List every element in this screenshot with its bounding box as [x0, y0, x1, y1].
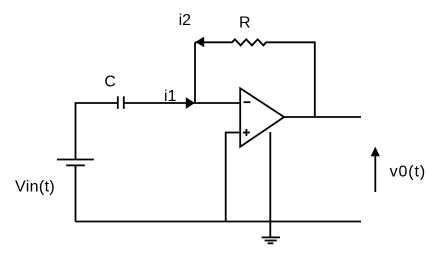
wire: left rail top + top-left horizontal	[76, 103, 118, 160]
svg-text:Vin(t): Vin(t)	[15, 178, 55, 195]
voltage source Vin (battery)	[57, 160, 94, 166]
resistor R	[230, 39, 269, 45]
wire: feedback top	[195, 41, 230, 43]
arrow v0(t) output indicator	[371, 147, 380, 192]
wire: ground drop from op-amp	[269, 132, 271, 237]
op-amp non-inverting input marker (+)	[243, 129, 250, 136]
op-amp U1	[240, 88, 284, 147]
svg-text:R: R	[239, 14, 251, 31]
ground	[262, 237, 280, 243]
svg-text:i1: i1	[164, 88, 177, 105]
wire: capacitor to op-amp inverting input	[124, 102, 240, 104]
current arrow i1	[186, 97, 195, 109]
op-amp inverting input marker (-)	[244, 101, 251, 103]
wire: non-inverting input to bottom rail	[226, 133, 241, 222]
svg-text:C: C	[104, 73, 116, 90]
wire: op-amp output	[284, 116, 361, 118]
svg-text:v0(t): v0(t)	[390, 164, 427, 181]
wire: feedback top right	[269, 42, 315, 117]
capacitor C	[118, 96, 124, 109]
wire: left feedback rail	[194, 42, 196, 103]
wire: bottom rail	[76, 221, 362, 223]
wire: left rail bottom	[75, 165, 77, 221]
svg-text:i2: i2	[179, 12, 192, 29]
current arrow i2	[195, 37, 204, 48]
